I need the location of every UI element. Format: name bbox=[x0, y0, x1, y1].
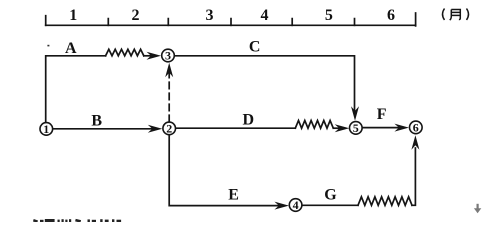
svg-text:4: 4 bbox=[293, 198, 299, 212]
svg-text:D: D bbox=[243, 112, 255, 129]
svg-text:A: A bbox=[65, 40, 77, 57]
svg-text:1: 1 bbox=[43, 122, 49, 136]
svg-text:3: 3 bbox=[206, 7, 214, 24]
svg-text:E: E bbox=[228, 187, 239, 204]
svg-text:5: 5 bbox=[353, 121, 359, 135]
svg-text:2: 2 bbox=[132, 7, 140, 24]
svg-text:4: 4 bbox=[261, 7, 269, 24]
svg-text:6: 6 bbox=[387, 7, 395, 24]
svg-text:F: F bbox=[377, 106, 387, 123]
svg-text:C: C bbox=[249, 39, 261, 56]
svg-text:6: 6 bbox=[413, 121, 419, 135]
svg-text:2: 2 bbox=[166, 122, 172, 136]
svg-text:5: 5 bbox=[325, 7, 333, 24]
svg-text:B: B bbox=[91, 112, 102, 129]
svg-text:1: 1 bbox=[69, 7, 77, 24]
svg-text:G: G bbox=[324, 186, 337, 203]
svg-text:3: 3 bbox=[165, 49, 171, 63]
